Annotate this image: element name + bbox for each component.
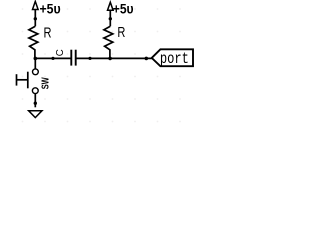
capacitor C plates bbox=[71, 50, 75, 66]
port flag outline bbox=[152, 49, 193, 66]
switch SW top terminal bbox=[33, 69, 39, 75]
power symbol +5v (left) arrow bbox=[33, 1, 39, 26]
wire node A to capacitor left plate bbox=[35, 57, 71, 59]
svg-text:C: C bbox=[55, 49, 66, 56]
ground symbol triangle bbox=[29, 111, 42, 118]
capacitor C left pin dot bbox=[51, 57, 54, 60]
ground pin dot bbox=[34, 102, 37, 105]
switch SW bottom terminal bbox=[32, 88, 38, 94]
svg-text:+5υ: +5υ bbox=[113, 1, 134, 17]
capacitor C right pin dot bbox=[88, 57, 91, 60]
node B junction dot (right resistor to wire) bbox=[108, 57, 112, 61]
svg-text:+5υ: +5υ bbox=[40, 1, 61, 17]
svg-text:R: R bbox=[44, 25, 52, 42]
wire capacitor right plate to port bbox=[76, 57, 152, 59]
power symbol +5v (right) arrow bbox=[108, 2, 114, 26]
switch SW plunger bbox=[17, 72, 28, 89]
svg-text:port: port bbox=[160, 51, 189, 69]
svg-text:R: R bbox=[117, 24, 125, 41]
wire node A down to switch bbox=[34, 58, 36, 69]
node A junction dot (left resistor / switch / cap) bbox=[34, 57, 38, 61]
resistor R1 (left) zigzag bbox=[29, 26, 38, 58]
wire switch to ground bbox=[34, 94, 36, 108]
port pin dot bbox=[145, 57, 149, 61]
resistor R2 (right) zigzag bbox=[104, 26, 113, 58]
svg-text:SW: SW bbox=[41, 77, 52, 89]
grid dots bbox=[22, 8, 181, 122]
